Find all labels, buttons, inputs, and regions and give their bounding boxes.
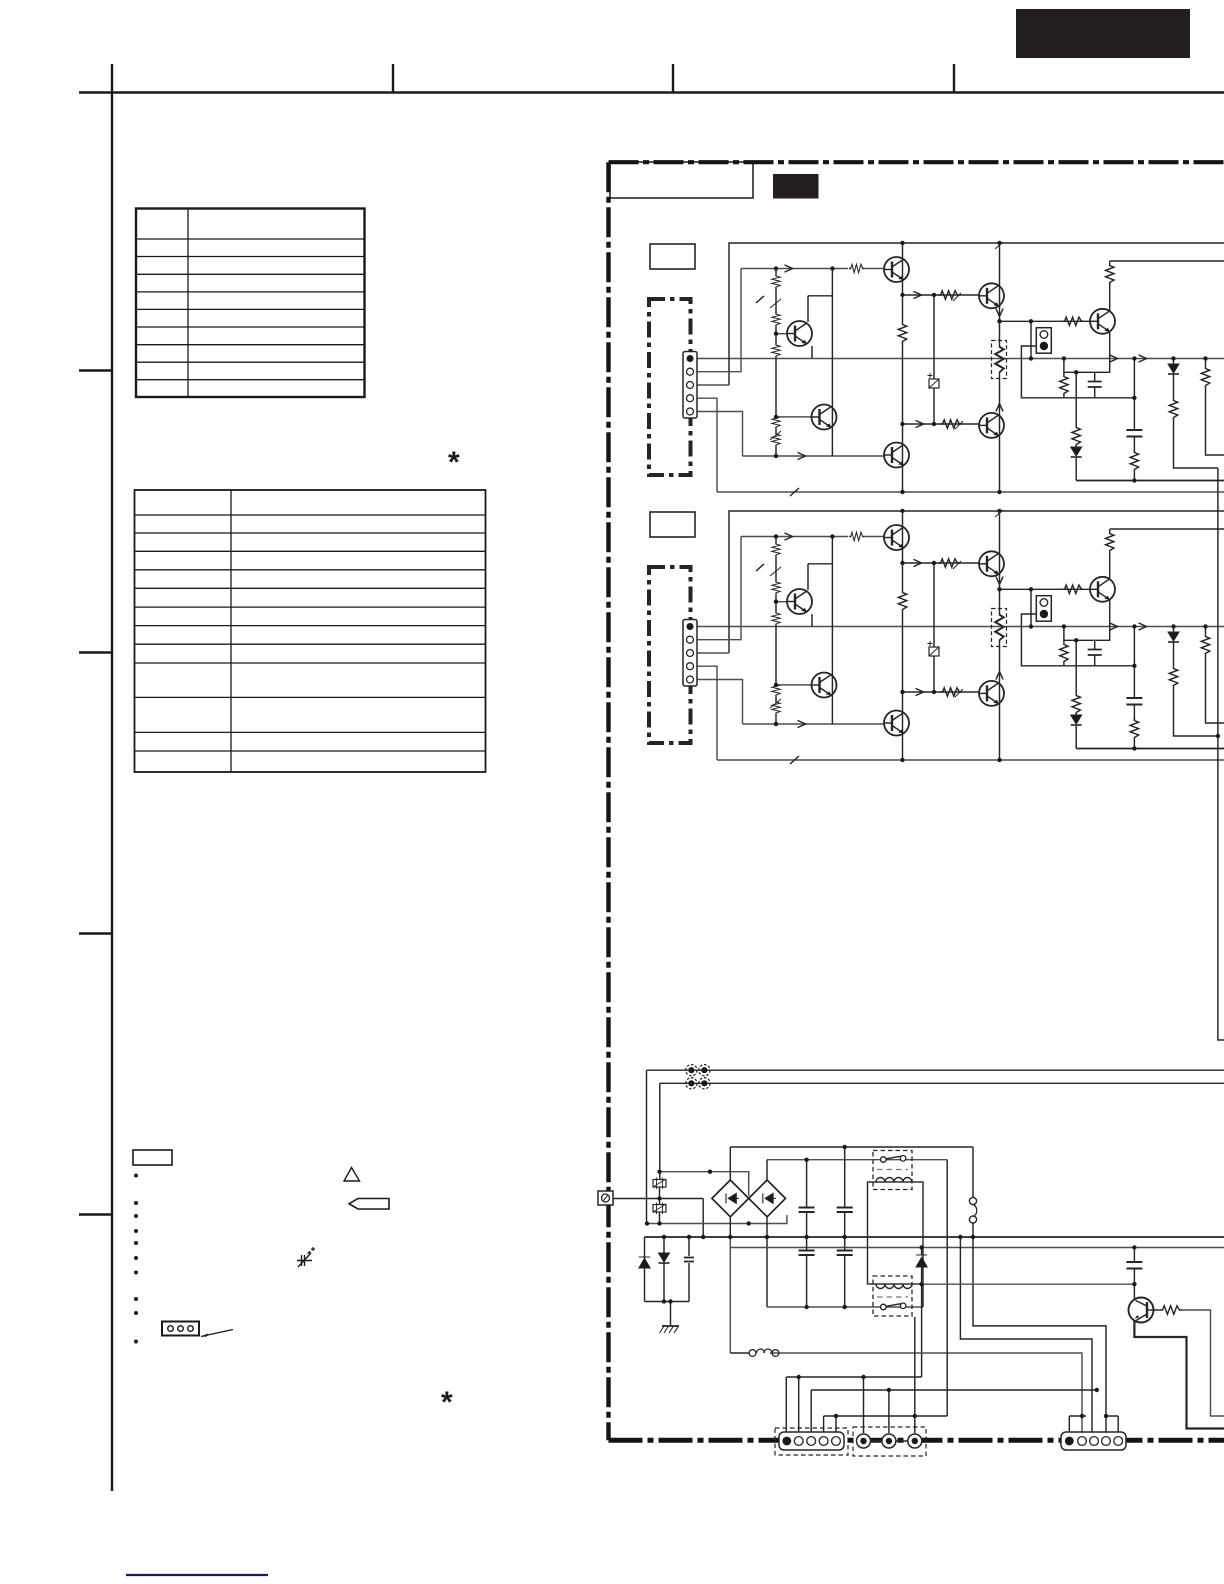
svg-text:*: * xyxy=(441,1386,453,1419)
svg-text:*: * xyxy=(448,446,460,479)
